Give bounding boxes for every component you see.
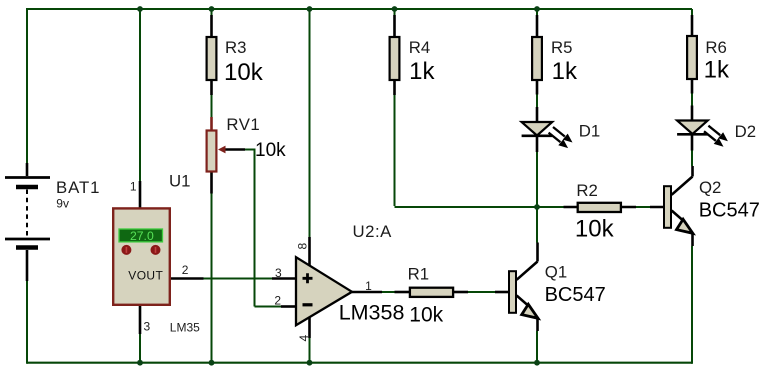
pin number 2 opamp	[274, 294, 281, 308]
label LM358	[339, 300, 405, 324]
svg-text:R5: R5	[551, 38, 572, 57]
pin number 3 U1	[144, 320, 151, 334]
wire opamp pin4 ground column	[308, 317, 311, 364]
label R2 value 10k	[575, 215, 615, 242]
svg-text:U1: U1	[169, 172, 190, 191]
LED D2	[677, 121, 728, 147]
label Q2	[699, 178, 721, 197]
label 9v	[56, 197, 69, 211]
wire Q1 emitter to ground	[536, 318, 539, 364]
svg-text:Q1: Q1	[545, 263, 567, 282]
label U2:A	[353, 222, 393, 241]
wire opamp pin8 supply column	[309, 9, 311, 266]
label RV1	[226, 115, 260, 134]
pin number 1 U1	[130, 180, 137, 194]
svg-text:D2: D2	[735, 122, 756, 141]
wire U1 pin3 column	[139, 306, 142, 364]
svg-text:R4: R4	[409, 38, 430, 57]
label R2	[576, 181, 597, 200]
svg-text:Q2: Q2	[699, 178, 721, 197]
svg-text:D1: D1	[579, 121, 600, 140]
wire Q2 emitter to ground	[691, 233, 694, 364]
junction top rail x211	[209, 6, 215, 12]
wire left battery column	[26, 8, 28, 364]
svg-text:3: 3	[144, 320, 151, 334]
svg-text:1k: 1k	[704, 57, 730, 84]
sensor U1 down button	[151, 245, 161, 255]
svg-text:1k: 1k	[409, 58, 435, 85]
svg-text:1: 1	[130, 180, 137, 194]
pin number 3 opamp	[275, 266, 282, 280]
wire U1 pin1 column	[139, 9, 141, 208]
wire RV1 wiper to opamp minus input	[225, 149, 296, 307]
pin number 2 U1	[182, 263, 189, 277]
label RV1 value 10k	[255, 140, 286, 161]
wire R3 RV1 divider column	[211, 9, 213, 364]
wire opamp output to R1	[352, 291, 410, 294]
svg-text:10k: 10k	[409, 303, 443, 326]
sensor U1 LM35 body	[113, 208, 170, 304]
label Q1	[545, 263, 567, 282]
svg-text:10k: 10k	[255, 140, 286, 161]
svg-text:2: 2	[274, 294, 281, 308]
svg-text:R1: R1	[408, 264, 429, 283]
label Q1 value BC547	[545, 284, 606, 306]
battery BAT1	[5, 163, 50, 281]
svg-text:1: 1	[365, 279, 372, 293]
potentiometer RV1	[207, 131, 226, 172]
wire R6 D2 Q2 right column	[672, 9, 693, 195]
wire R5 D1 Q1 collector column	[517, 9, 538, 280]
svg-text:10k: 10k	[224, 59, 264, 86]
wire VOUT to opamp plus input	[171, 277, 296, 280]
svg-text:2: 2	[182, 263, 189, 277]
svg-text:3: 3	[275, 266, 282, 280]
wire R1 to Q1 base	[454, 291, 509, 294]
pin number 1 opamp output	[365, 279, 372, 293]
label D1	[579, 121, 600, 140]
junction top rail x394	[392, 6, 398, 12]
resistor R5	[532, 37, 542, 80]
svg-text:R6: R6	[705, 38, 726, 57]
svg-text:U2:A: U2:A	[353, 222, 393, 241]
label BAT1	[56, 178, 100, 197]
svg-text:LM35: LM35	[170, 321, 200, 335]
label LM35	[170, 321, 200, 335]
label R3 value 10k	[224, 59, 264, 86]
junction top rail x537	[534, 6, 540, 12]
resistor R1	[410, 288, 453, 297]
label R6	[705, 38, 726, 57]
transistor Q2	[664, 186, 693, 233]
junction top rail x140	[137, 6, 143, 12]
label U1	[169, 172, 190, 191]
resistor R6	[687, 36, 697, 79]
svg-text:8: 8	[296, 243, 310, 250]
svg-text:BC547: BC547	[545, 284, 606, 306]
svg-text:VOUT: VOUT	[128, 268, 163, 282]
resistor R2	[578, 203, 621, 212]
transistor Q1	[509, 271, 538, 318]
label D2	[735, 122, 756, 141]
svg-text:4: 4	[297, 335, 311, 342]
sensor U1 display	[119, 229, 163, 243]
LED D1	[522, 122, 573, 148]
svg-text:LM358: LM358	[339, 300, 405, 324]
svg-text:R3: R3	[225, 38, 246, 57]
svg-text:R2: R2	[576, 181, 597, 200]
pin number 4 opamp	[297, 335, 311, 342]
svg-text:1k: 1k	[552, 58, 578, 85]
wire R4 column and collector net	[395, 9, 564, 207]
junction bottom rail x211	[209, 360, 215, 366]
svg-text:BAT1: BAT1	[56, 178, 100, 197]
label R1 value 10k	[409, 303, 443, 326]
label R4 value 1k	[409, 58, 435, 85]
label Q2 value BC547	[699, 200, 760, 222]
label VOUT	[128, 268, 163, 282]
label R3	[225, 38, 246, 57]
label R1	[408, 264, 429, 283]
junction collector net x537 y207	[534, 204, 540, 210]
pin number 8 opamp	[296, 243, 310, 250]
junction bottom rail x140	[137, 360, 143, 366]
resistor R3	[207, 37, 217, 80]
svg-text:10k: 10k	[575, 215, 615, 242]
wire R2 stubs to Q2 base	[564, 206, 664, 209]
op-amp U2:A	[296, 257, 352, 325]
svg-text:RV1: RV1	[226, 115, 260, 134]
junction top rail x309	[307, 6, 313, 12]
svg-text:BC547: BC547	[699, 200, 760, 222]
label R5	[551, 38, 572, 57]
label R6 value 1k	[704, 57, 730, 84]
junction bottom rail x537	[534, 360, 540, 366]
svg-text:27.0: 27.0	[130, 229, 154, 243]
resistor R4	[390, 37, 400, 80]
label R4	[409, 38, 430, 57]
wire bottom rail	[27, 362, 692, 364]
label R5 value 1k	[552, 58, 578, 85]
sensor U1 up button	[121, 245, 131, 255]
junction bottom rail x309	[307, 360, 313, 366]
svg-text:9v: 9v	[56, 197, 69, 211]
wire top rail	[27, 8, 692, 10]
